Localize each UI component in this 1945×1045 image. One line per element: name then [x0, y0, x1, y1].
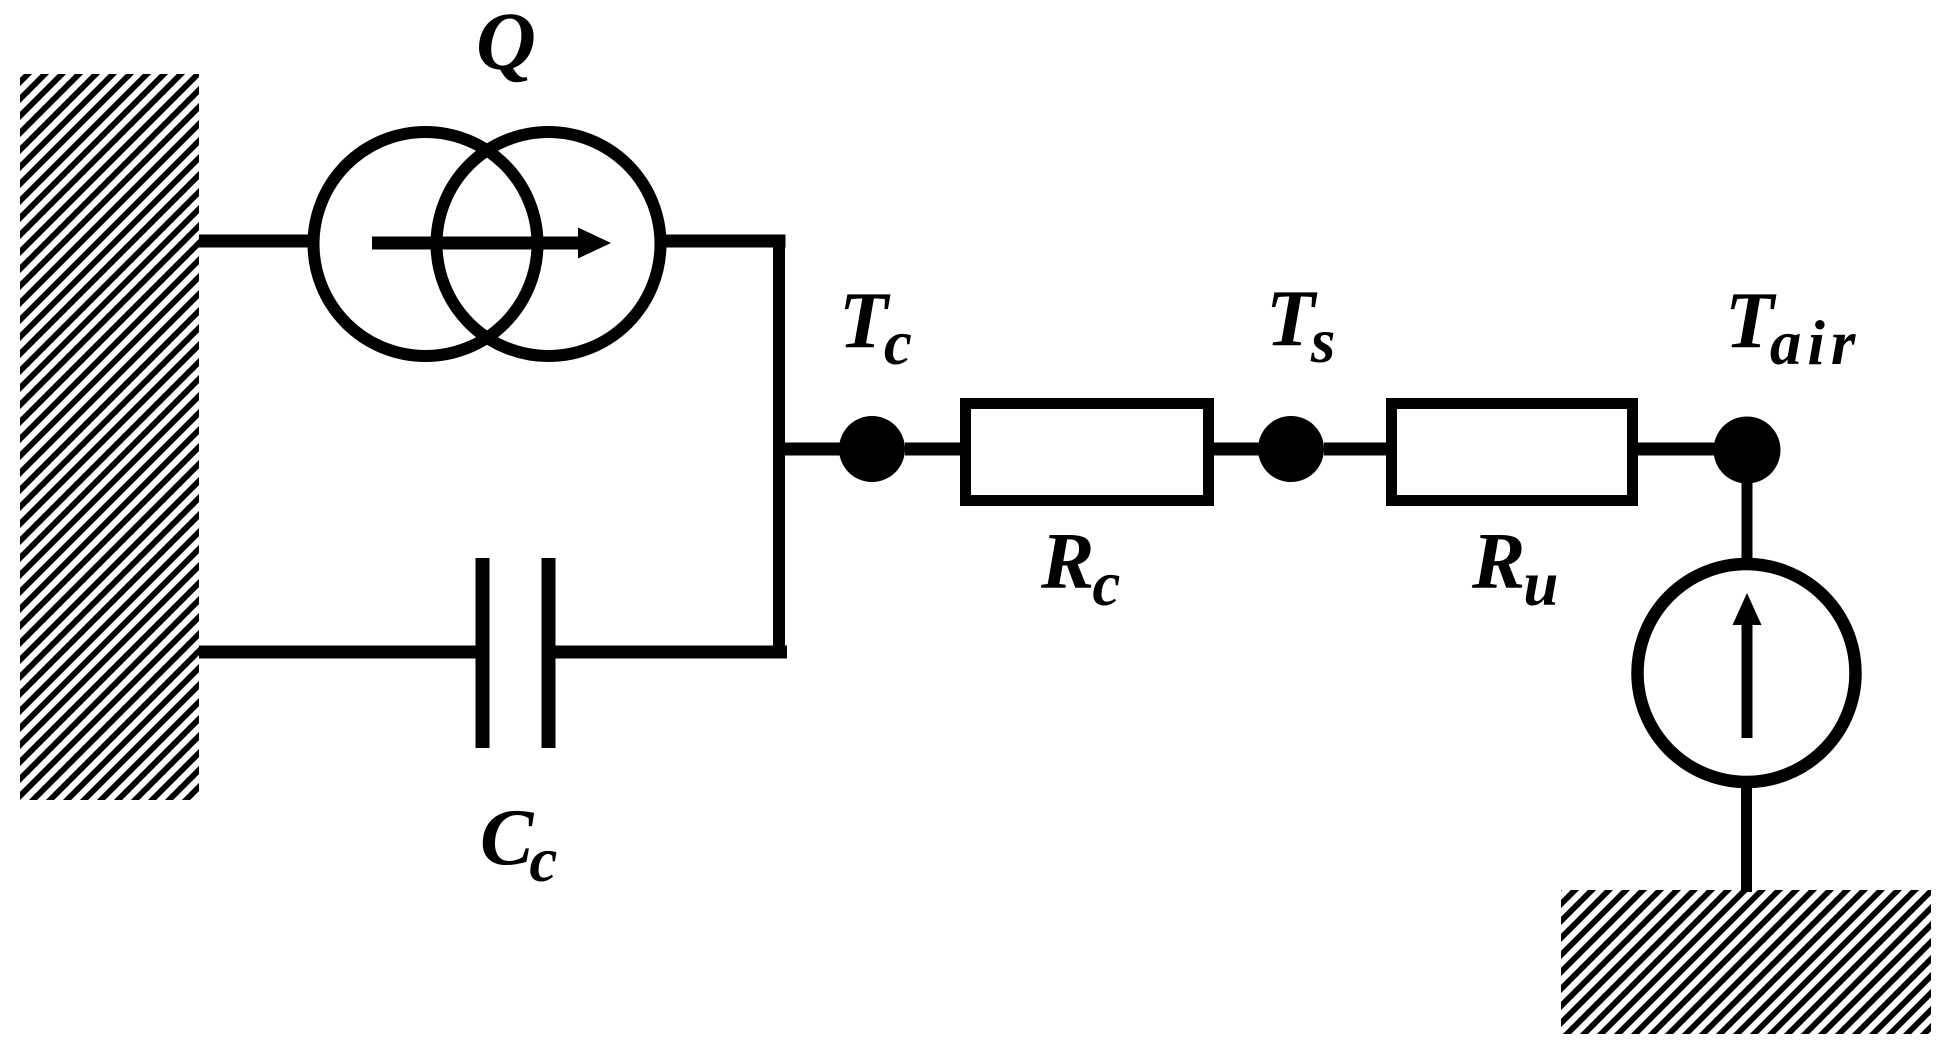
capacitor Cc (two plates)	[483, 558, 549, 748]
wire: bus to node Tc	[785, 443, 845, 456]
svg-text:Rc: Rc	[1040, 518, 1120, 619]
svg-text:Ts: Ts	[1266, 275, 1335, 376]
wire: Tair down to air source	[1742, 450, 1753, 563]
wire: vertical bus	[773, 235, 785, 659]
wire: Rc to Ts	[1214, 443, 1260, 456]
wire: capacitor Cc to bus	[555, 646, 787, 659]
svg-text:Tair: Tair	[1725, 277, 1861, 378]
svg-text:Ru: Ru	[1471, 518, 1558, 619]
wall (hot side), hatched	[20, 74, 199, 800]
wire: wall to source Q	[199, 235, 314, 248]
node Tair	[1714, 417, 1781, 484]
wire: Ts to Ru	[1324, 443, 1387, 456]
svg-text:Q: Q	[476, 0, 536, 87]
wire: Tc to Rc	[905, 443, 965, 456]
svg-text:Tc: Tc	[839, 277, 912, 378]
resistor Rc	[966, 404, 1209, 501]
heat source Q (double-circle with arrow)	[314, 132, 661, 356]
node Tc	[839, 416, 905, 482]
resistor Ru	[1392, 404, 1633, 501]
air temperature source (circle with up arrow)	[1638, 564, 1856, 782]
svg-text:Cc: Cc	[480, 794, 557, 895]
wire: source Q to bus corner	[660, 235, 786, 248]
wire: wall to capacitor Cc	[199, 646, 476, 659]
ground (air side), hatched	[1561, 890, 1931, 1034]
node Ts	[1258, 416, 1324, 482]
wire: air source to ground	[1741, 782, 1752, 892]
wire: Ru to Tair	[1638, 443, 1715, 456]
